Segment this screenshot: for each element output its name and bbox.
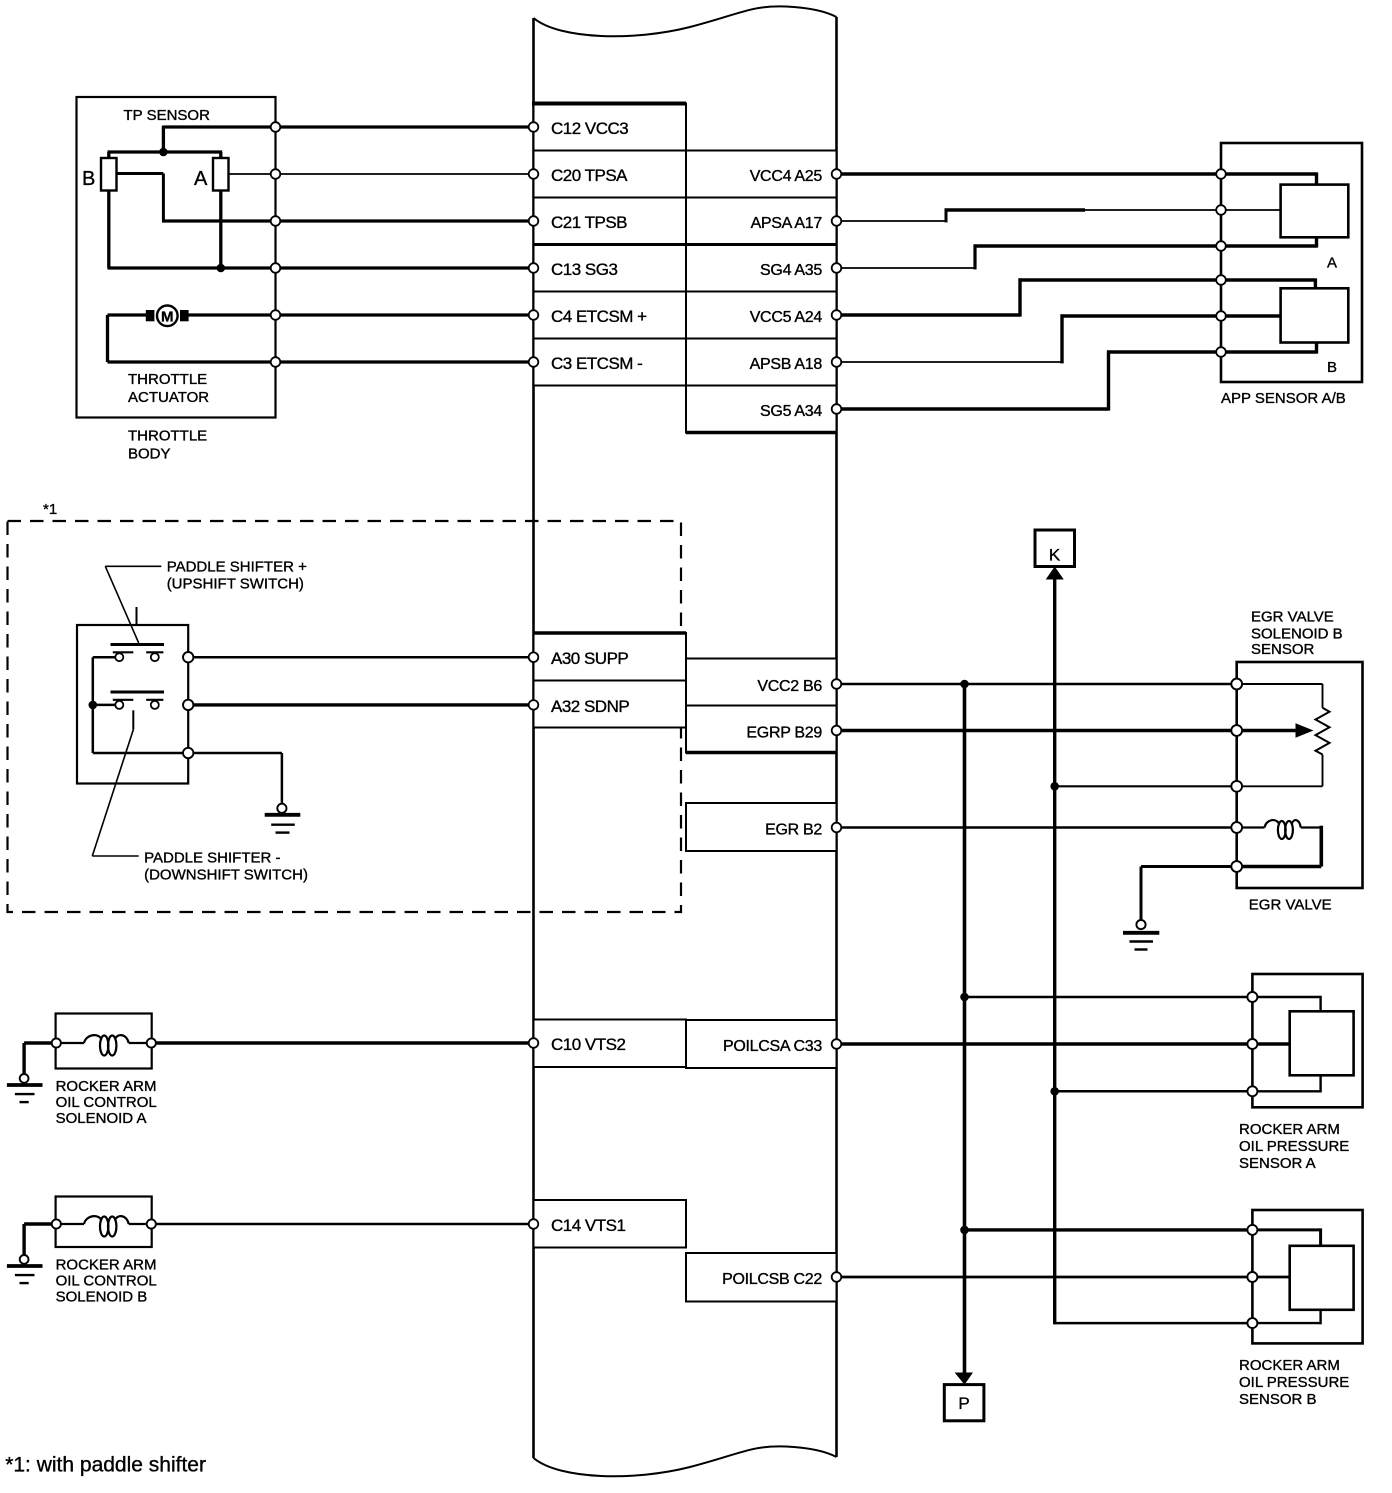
svg-text:C4 ETCSM +: C4 ETCSM + [551,307,647,326]
svg-text:C10 VTS2: C10 VTS2 [551,1035,625,1054]
EGR valve solenoid B sensor box [1237,662,1363,888]
potentiometer resistor (EGR sensor) [1316,708,1330,755]
ECM pin boxes A30/A32 [534,633,687,728]
wire SG5 A34 to APP sensor [841,350,1221,410]
dashed option box *1 [8,521,682,912]
svg-text:OIL PRESSURE: OIL PRESSURE [1239,1138,1349,1155]
svg-text:OIL PRESSURE: OIL PRESSURE [1239,1374,1349,1391]
svg-text:A30 SUPP: A30 SUPP [551,649,628,668]
junction node SG3 [217,264,226,273]
arrow to connector K [1046,567,1064,580]
svg-text:EGRP B29: EGRP B29 [746,725,822,742]
wire ETCSM- : motor to C3 [108,315,534,362]
wire ETCSM+ : motor to C4 [186,313,534,316]
ECM right connector pin boxes (top group) [686,151,837,433]
rocker arm oil pressure sensor B box [1252,1210,1362,1343]
wire VCC2 B6 net [841,683,1232,686]
upshift switch fixed contact bars [113,651,134,653]
downshift leader line [92,730,138,856]
svg-text:VCC2 B6: VCC2 B6 [757,678,822,695]
svg-text:M: M [161,308,174,325]
svg-text:C20 TPSA: C20 TPSA [551,166,628,185]
svg-text:ROCKER ARM: ROCKER ARM [1239,1121,1340,1138]
junction node TP sensor supply [159,148,168,157]
connector P box [944,1385,984,1421]
ECM pin boxes VCC2/EGRP [686,659,837,753]
wire VCC4 A25 to APP sensor [841,172,1221,175]
ECM/PCM band right edge [835,17,838,1457]
solenoid B connector circles [52,1219,156,1228]
svg-text:SENSOR A: SENSOR A [1239,1155,1316,1172]
sensor A internal wires [1257,996,1321,1093]
rocker arm oil control solenoid A box [56,1014,152,1069]
svg-text:PADDLE SHIFTER +: PADDLE SHIFTER + [167,558,307,575]
svg-text:APSA A17: APSA A17 [751,215,823,232]
svg-text:VCC4 A25: VCC4 A25 [750,168,823,185]
svg-text:*1: *1 [43,501,57,518]
svg-text:BODY: BODY [128,446,171,463]
svg-text:(UPSHIFT SWITCH): (UPSHIFT SWITCH) [167,576,304,593]
wire APSA A17 to APP sensor [841,209,1221,223]
pin circle C14 [529,1219,539,1229]
wire VCC2 vertical bus to P [963,684,967,1373]
downshift switch actuator tick [132,710,134,729]
APP sensor A internal wires [1226,172,1317,247]
svg-text:ROCKER ARM: ROCKER ARM [1239,1357,1340,1374]
wire SG4 A35 to APP sensor [841,245,1221,270]
svg-text:C12 VCC3: C12 VCC3 [551,119,628,138]
EGR valve solenoid coil [1241,820,1321,839]
ECM/PCM band bottom torn wavy edge [534,1446,837,1476]
sensor B connector circles [1247,1225,1257,1328]
wire TPSA: resistor A wiper to C20 [229,173,534,175]
svg-text:OIL CONTROL: OIL CONTROL [56,1094,157,1111]
sensor A element square [1290,1011,1354,1075]
wire TPSB: resistor B wiper to C21 [117,174,534,222]
svg-text:VCC5 A24: VCC5 A24 [750,309,823,326]
svg-text:TP SENSOR: TP SENSOR [124,107,211,124]
solenoid B coil [61,1216,147,1236]
junction node K bus to sensor A return [1050,1087,1059,1096]
wire VTS1 solenoid B to C14 [156,1223,534,1226]
svg-text:B: B [1327,359,1337,376]
junction node K bus / EGR sensor return [1050,782,1059,791]
svg-text:THROTTLE: THROTTLE [128,371,207,388]
wire SDNP to A32 [193,703,534,706]
downshift switch moving contact bar [111,691,165,694]
svg-text:SOLENOID B: SOLENOID B [56,1289,148,1306]
ECM pin box POILCSA C33 [686,1020,837,1068]
APP sensor element A square [1281,185,1349,238]
svg-text:THROTTLE: THROTTLE [128,428,207,445]
svg-text:C13 SG3: C13 SG3 [551,260,617,279]
wire K vertical bus [1053,579,1056,1325]
ground symbol (solenoid B) [7,1255,43,1283]
wire APSB A18 to APP sensor [841,314,1221,363]
motor M (throttle actuator) [146,306,189,327]
junction node switch common [89,701,98,710]
rocker arm oil control solenoid B box [56,1197,152,1248]
svg-text:A: A [1327,255,1337,272]
pin circles A30 A32 [529,652,539,709]
thick edges top group [532,102,686,106]
solenoid A connector circles [52,1038,156,1047]
junction node VCC bus to sensor B supply [960,1226,969,1235]
svg-text:POILCSB C22: POILCSB C22 [722,1271,822,1288]
ECM pin box EGR B2 [686,803,837,851]
svg-text:ACTUATOR: ACTUATOR [128,389,209,406]
upshift leader line [105,566,161,643]
ECM pin circles POILCSA/POILCSB [832,1039,842,1282]
svg-text:(DOWNSHIFT SWITCH): (DOWNSHIFT SWITCH) [144,867,308,884]
upshift switch actuator tick [136,607,138,625]
wire EGRP B29 net [841,729,1232,732]
wire POILCSB C22 to sensor B [841,1276,1248,1279]
ground symbol (EGR valve) [1123,920,1159,950]
ECM left connector pin boxes (top group) [534,104,687,386]
APP SENSOR A/B box [1221,143,1362,382]
solenoid A coil [61,1035,147,1055]
junction node VCC bus to sensor A supply [960,993,969,1002]
wire VCC5 A24 to APP sensor [841,278,1221,316]
wire VTS2 solenoid A to C10 [156,1041,534,1044]
ECM pin box C14 VTS1 [534,1200,687,1248]
ECM/PCM band left edge [532,18,535,1458]
EGR valve ground wire [1141,867,1232,921]
throttle body connector pass-through circles [271,122,281,367]
solenoid B ground wire [24,1224,52,1255]
junction node VCC2 bus [960,680,969,689]
ECM pin circles right column top [832,169,842,414]
switch box connector circles [183,652,193,758]
svg-text:*1: with paddle shifter: *1: with paddle shifter [5,1454,206,1477]
svg-text:EGR VALVE: EGR VALVE [1249,896,1332,913]
svg-text:SG4 A35: SG4 A35 [760,262,822,279]
arrow to connector P [955,1373,973,1385]
EGRP wiper arrow [1241,729,1296,732]
svg-text:PADDLE SHIFTER -: PADDLE SHIFTER - [144,849,280,866]
ground symbol (paddle shifter) [265,804,301,833]
svg-text:A: A [194,168,208,190]
svg-text:ROCKER ARM: ROCKER ARM [56,1256,157,1273]
EGR sensor internal supply wire [1241,684,1323,708]
upshift contact circles [115,653,159,709]
svg-text:EGR VALVE: EGR VALVE [1251,608,1334,625]
sensor B element square [1290,1246,1354,1310]
wire C12 VCC3 to TP sensor top [108,126,534,152]
svg-text:EGR B2: EGR B2 [765,822,822,839]
svg-text:APP SENSOR A/B: APP SENSOR A/B [1221,390,1346,407]
svg-text:SENSOR B: SENSOR B [1239,1391,1317,1408]
wire EGR B2 net [841,826,1232,829]
ECM pin circles VCC2/EGRP/EGR [832,679,842,832]
svg-text:ROCKER ARM: ROCKER ARM [56,1078,157,1095]
APP sensor B internal wires [1226,278,1317,353]
svg-text:C3 ETCSM -: C3 ETCSM - [551,354,642,373]
EGR sensor internal return wire [1241,755,1323,787]
wire switch common to ground [193,753,282,804]
wire SUPP to A30 [193,656,534,659]
solenoid A ground wire [24,1043,52,1074]
resistor B (TP sensor element B) [101,158,117,191]
sensor B internal wires [1257,1228,1321,1324]
svg-text:APSB A18: APSB A18 [750,356,823,373]
svg-text:B: B [82,168,95,190]
wire sensor A supply stub [965,996,1248,999]
svg-text:C14 VTS1: C14 VTS1 [551,1216,625,1235]
wire sensor B return stub (K bus elbow) [1054,1322,1248,1325]
svg-text:POILCSA C33: POILCSA C33 [723,1038,822,1055]
pin circle C10 [529,1038,539,1048]
wire POILCSA C33 to sensor A [841,1042,1248,1045]
svg-text:C21 TPSB: C21 TPSB [551,213,627,232]
resistor A (TP sensor element A) [213,158,229,191]
upshift switch moving contact bar [111,643,165,646]
APP sensor connector circles [1216,169,1226,357]
svg-text:SOLENOID B: SOLENOID B [1251,625,1343,642]
throttle body box [77,97,276,418]
EGR sensor connector circles [1231,679,1242,872]
switch left common wires [93,657,188,753]
wire sensor B supply stub [965,1228,1248,1231]
svg-text:SOLENOID A: SOLENOID A [56,1110,147,1127]
EGR valve coil return wire [1241,826,1321,867]
svg-text:A32 SDNP: A32 SDNP [551,697,629,716]
ECM pin box C10 VTS2 [534,1020,687,1068]
rocker arm oil pressure sensor A box [1252,974,1362,1107]
svg-text:P: P [958,1394,969,1413]
ground symbol (solenoid A) [7,1074,43,1102]
APP sensor element B square [1281,288,1349,342]
ECM pin box POILCSB C22 [686,1253,837,1302]
svg-text:K: K [1049,546,1061,565]
downshift switch fixed contact bars [113,699,134,701]
sensor A connector circles [1247,992,1257,1096]
ECM/PCM band top torn wavy edge [534,6,837,36]
connector K box [1035,530,1075,567]
wire SG3: resistor bottoms to C13 [108,191,534,269]
svg-text:OIL CONTROL: OIL CONTROL [56,1272,157,1289]
svg-text:SG5 A34: SG5 A34 [760,403,822,420]
wire sensor A return stub [1055,1090,1248,1093]
svg-text:SENSOR: SENSOR [1251,641,1315,658]
ECM pin circles left column top [529,122,539,367]
paddle shifter switch box [77,625,188,784]
wire EGR sensor return stub [1055,785,1232,787]
